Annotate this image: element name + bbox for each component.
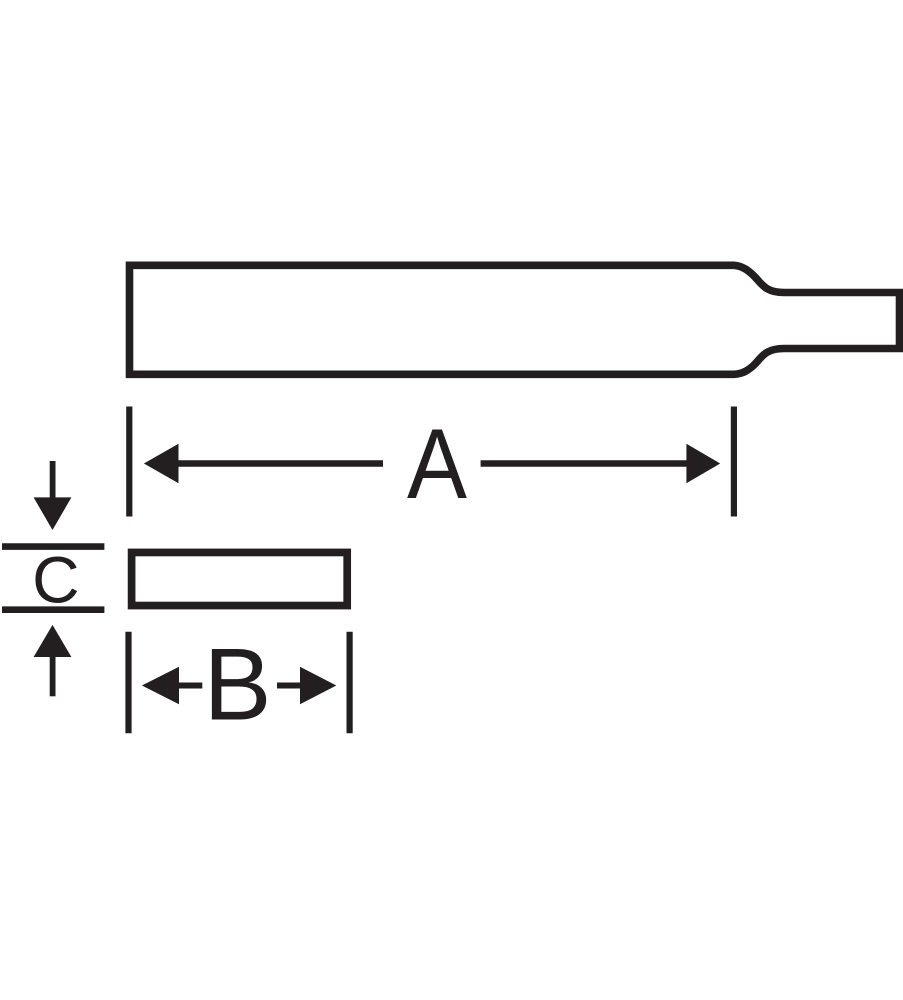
svg-text:A: A — [407, 409, 468, 520]
svg-text:B: B — [203, 628, 271, 742]
svg-text:C: C — [32, 544, 79, 617]
